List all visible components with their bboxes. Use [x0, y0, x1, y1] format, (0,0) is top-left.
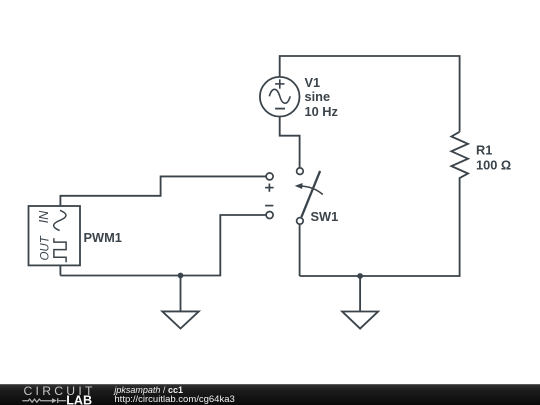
- svg-text:OUT: OUT: [40, 235, 52, 260]
- svg-text:IN: IN: [37, 210, 51, 223]
- svg-text:100 Ω: 100 Ω: [476, 158, 511, 173]
- svg-text:http://circuitlab.com/cg64ka3: http://circuitlab.com/cg64ka3: [114, 394, 234, 405]
- svg-text:LAB: LAB: [66, 394, 92, 405]
- svg-text:PWM1: PWM1: [84, 230, 122, 245]
- svg-text:V1: V1: [305, 75, 321, 90]
- svg-text:SW1: SW1: [311, 209, 339, 224]
- svg-text:R1: R1: [476, 142, 492, 157]
- svg-text:10 Hz: 10 Hz: [305, 104, 338, 119]
- svg-text:sine: sine: [305, 89, 331, 104]
